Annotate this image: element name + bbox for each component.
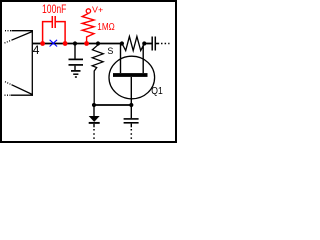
wire output stub — [156, 43, 159, 45]
wire from resistor to capacitor — [144, 43, 152, 45]
wire top edge dotted start — [5, 30, 12, 32]
ground — [71, 71, 81, 77]
junction dot — [120, 41, 124, 45]
node marker X (blue) — [50, 40, 58, 47]
wire top diagonal — [12, 31, 33, 40]
svg-text:1MΩ: 1MΩ — [97, 20, 114, 32]
svg-text:V+: V+ — [92, 5, 103, 15]
pin 4 wire — [32, 43, 43, 45]
transistor Q1 (circle) — [109, 56, 155, 99]
Q1 gate lead — [130, 77, 132, 105]
wire dotted — [130, 129, 132, 142]
junction dot (red) — [63, 41, 68, 46]
bottom wire — [94, 104, 131, 106]
wire bottom edge dotted start — [5, 94, 12, 96]
junction dot (red) — [40, 41, 45, 46]
junction dot — [142, 41, 146, 45]
resistor R1 1M (red, vertical zigzag) — [82, 13, 94, 43]
junction dot — [129, 103, 133, 107]
junction dot — [96, 41, 100, 45]
wire dotted — [93, 129, 95, 142]
svg-text:S: S — [107, 46, 113, 56]
wire bottom edge — [11, 94, 33, 96]
main wire (gate line) — [42, 43, 122, 45]
svg-text:Q1: Q1 — [151, 85, 162, 97]
resistor R3 (gate-drain, horizontal zigzag) — [122, 36, 144, 50]
wire bottom diagonal dotted start — [5, 82, 12, 85]
border frame — [1, 1, 176, 142]
wire dotted output — [161, 43, 170, 45]
wire right edge — [31, 30, 33, 96]
capacitor C4 (bottom right) — [124, 105, 139, 142]
Q1 source lead — [120, 44, 122, 73]
resistor R2 (source resistor, vertical zigzag) — [92, 45, 103, 105]
wire bottom diagonal — [12, 85, 33, 95]
capacitor C2 (to ground) — [69, 44, 84, 70]
junction dot (red) — [84, 41, 89, 46]
IC U1 (partial box, clipped symbol) — [5, 30, 33, 96]
capacitor C3 (output, right) — [152, 37, 169, 51]
svg-text:4: 4 — [33, 43, 40, 57]
Q1 drain lead — [142, 44, 144, 73]
power V+ terminal (red) — [86, 9, 90, 13]
capacitor C1 100nF (red, selected) — [43, 16, 66, 44]
svg-text:100nF: 100nF — [42, 4, 66, 16]
wire top diagonal dotted start — [5, 40, 12, 43]
wire top edge — [12, 30, 33, 32]
Q1 channel bar — [113, 73, 148, 77]
diode D1 — [89, 105, 100, 142]
junction dot — [92, 103, 96, 107]
junction dot — [73, 41, 77, 45]
